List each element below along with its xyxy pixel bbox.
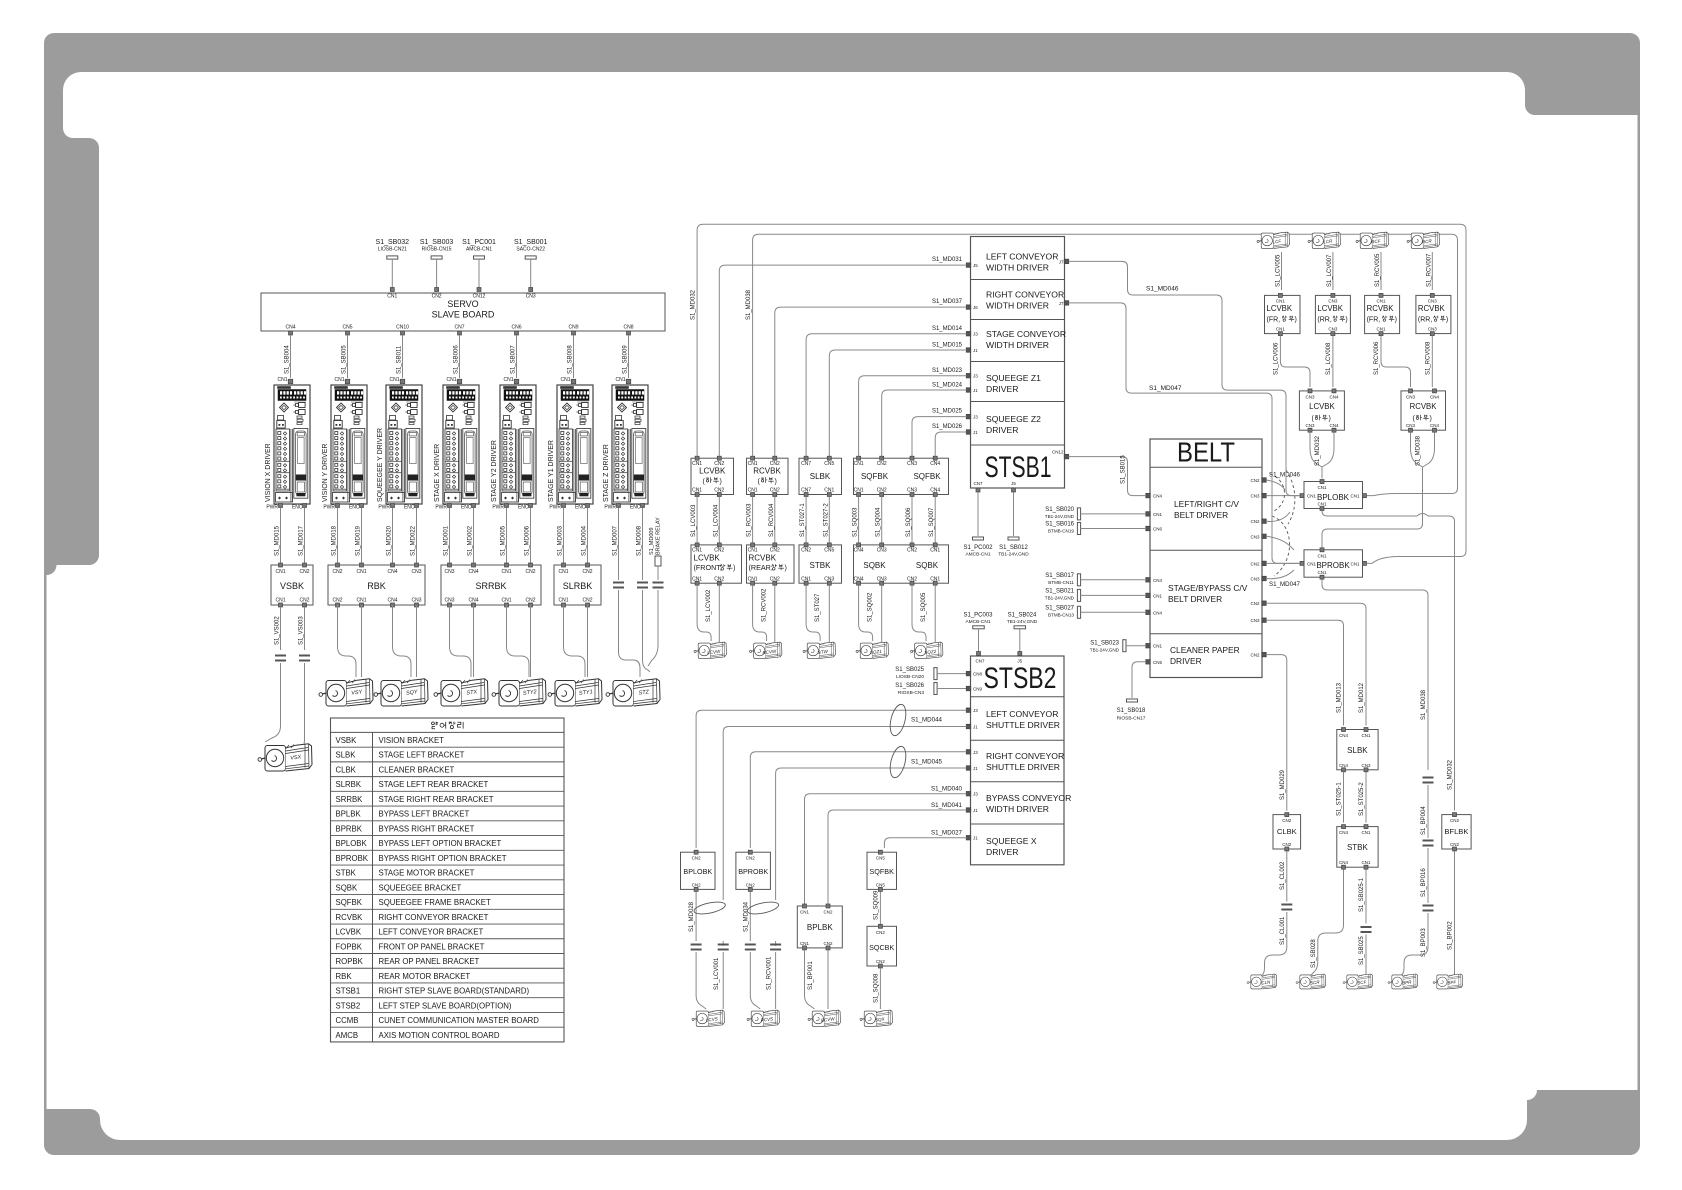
svg-text:SLRBK: SLRBK xyxy=(563,581,593,591)
pin CN6 xyxy=(1146,526,1163,531)
svg-text:BPLOBK: BPLOBK xyxy=(683,867,712,876)
svg-text:(FR,: (FR, xyxy=(1367,317,1381,324)
svg-text:CN2: CN2 xyxy=(299,598,309,604)
svg-text:S1_LCV006: S1_LCV006 xyxy=(1273,342,1279,375)
svg-text:S1_SQ005: S1_SQ005 xyxy=(921,592,927,622)
svg-text:RIGHT CONVEYOR BRACKET: RIGHT CONVEYOR BRACKET xyxy=(379,913,489,922)
svg-text:S1_MD001: S1_MD001 xyxy=(444,525,450,556)
svg-text:VISION Y DRIVER: VISION Y DRIVER xyxy=(322,444,329,502)
servo driver STAGE Z DRIVER xyxy=(603,377,648,511)
svg-text:ENC: ENC xyxy=(461,505,472,511)
bracket RCVBK (lower) middle xyxy=(747,456,789,496)
servo driver STAGE Y1 DRIVER xyxy=(548,377,593,511)
svg-text:CN2: CN2 xyxy=(801,548,811,554)
svg-text:FRONT OP PANEL BRACKET: FRONT OP PANEL BRACKET xyxy=(379,942,485,951)
svg-text:CN3: CN3 xyxy=(824,576,834,582)
svg-text:CN1: CN1 xyxy=(1361,860,1370,865)
svg-text:BTMB-CN13: BTMB-CN13 xyxy=(1048,612,1074,617)
bracket BPROBK (option) xyxy=(1300,548,1367,579)
svg-text:CN1: CN1 xyxy=(501,598,511,604)
wire S1_RCV008 xyxy=(1425,336,1432,387)
connector S1_PC003 AMCB-CN1 xyxy=(963,613,993,664)
svg-text:CN4: CN4 xyxy=(1339,763,1348,768)
svg-text:): ) xyxy=(785,565,787,572)
wire to motor SQY xyxy=(393,605,412,677)
svg-text:LEFT STEP SLAVE BOARD(OPTION): LEFT STEP SLAVE BOARD(OPTION) xyxy=(379,1001,512,1010)
pin CN3 right xyxy=(1250,618,1266,623)
svg-text:BELT: BELT xyxy=(1177,437,1235,468)
svg-text:CN4: CN4 xyxy=(387,598,397,604)
svg-text:): ) xyxy=(733,565,735,572)
svg-text:BYPASS LEFT OPTION BRACKET: BYPASS LEFT OPTION BRACKET xyxy=(379,839,502,848)
svg-text:ENC: ENC xyxy=(575,505,586,511)
svg-text:(: ( xyxy=(1312,416,1315,423)
wire S1_ST025-1 xyxy=(1337,772,1344,823)
svg-text:BPLBK: BPLBK xyxy=(336,810,362,819)
bracket RCVBK (lower right) xyxy=(1401,389,1446,432)
svg-text:S1_MD014: S1_MD014 xyxy=(932,326,963,332)
wire S1_BP002 xyxy=(1448,851,1455,975)
wire S1_LCV005 xyxy=(1276,252,1282,290)
svg-text:S1_SQ004: S1_SQ004 xyxy=(876,507,882,537)
svg-text:S1_SB027: S1_SB027 xyxy=(1045,605,1074,611)
svg-text:SQBK: SQBK xyxy=(863,561,886,570)
motor LCVW xyxy=(694,642,726,658)
wire S1_MD001 xyxy=(444,508,450,564)
svg-text:CN3: CN3 xyxy=(1428,327,1437,332)
connector S1_SB021 TB1-24V,GND xyxy=(1045,588,1146,601)
svg-text:S1_MD007: S1_MD007 xyxy=(613,525,619,556)
svg-text:BFLBK: BFLBK xyxy=(1444,827,1468,836)
connector S1_SB027 BTMB-CN13 xyxy=(1045,605,1146,618)
board pin CN7 xyxy=(454,325,464,336)
svg-text:BPROBK: BPROBK xyxy=(1316,561,1350,570)
svg-text:CN4: CN4 xyxy=(930,461,940,467)
svg-text:S1_MD005: S1_MD005 xyxy=(501,525,507,556)
bracket SLBK (right) xyxy=(1337,728,1378,772)
wire S1_ST025-2 xyxy=(1359,772,1366,823)
svg-text:S1_PC003: S1_PC003 xyxy=(963,613,993,619)
wire S1_MD038 (RCVBK loop to BPROBK) xyxy=(1322,521,1423,548)
svg-text:S1_MD040: S1_MD040 xyxy=(931,786,963,793)
svg-text:PWR: PWR xyxy=(323,505,335,511)
svg-text:RIGHT CONVEYOR: RIGHT CONVEYOR xyxy=(986,290,1064,300)
pin J3 xyxy=(966,791,978,796)
svg-text:RCVBK: RCVBK xyxy=(753,467,781,476)
svg-text:STAGE/BYPASS C/V: STAGE/BYPASS C/V xyxy=(1168,583,1248,593)
motor RCVW xyxy=(750,642,782,658)
svg-text:CN2: CN2 xyxy=(770,576,780,582)
svg-text:SLRBK: SLRBK xyxy=(336,780,362,789)
svg-text:S1_SB025: S1_SB025 xyxy=(1359,936,1365,965)
bracket BPROBK (lower) xyxy=(736,850,771,891)
svg-text:): ) xyxy=(1295,317,1297,324)
svg-text:CN3: CN3 xyxy=(1305,423,1314,428)
svg-text:S1_MD024: S1_MD024 xyxy=(932,383,963,389)
svg-text:CN3: CN3 xyxy=(907,488,917,494)
svg-text:RBK: RBK xyxy=(336,972,353,981)
svg-text:CN1: CN1 xyxy=(558,598,568,604)
svg-text:CN1: CN1 xyxy=(356,569,366,575)
svg-text:S1_LCV003: S1_LCV003 xyxy=(691,504,697,537)
servo driver VISION Y DRIVER xyxy=(322,377,367,511)
wire S1_MD038 loop xyxy=(1411,432,1435,521)
svg-text:STSB2: STSB2 xyxy=(984,662,1057,695)
wire S1_MD044 a xyxy=(696,710,966,848)
svg-text:CN4: CN4 xyxy=(285,325,295,331)
svg-text:CN1: CN1 xyxy=(1153,593,1162,598)
svg-text:S1_SB032: S1_SB032 xyxy=(376,239,410,246)
svg-text:RCVBK: RCVBK xyxy=(749,554,777,563)
svg-text:CN3: CN3 xyxy=(1328,327,1337,332)
svg-text:S1_ST025-2: S1_ST025-2 xyxy=(1359,782,1365,816)
svg-text:CN2: CN2 xyxy=(876,959,885,964)
svg-text:): ) xyxy=(1395,317,1397,324)
wire BPLBK CN2 down xyxy=(827,950,829,1009)
wire BELT CN3b to bundle xyxy=(1266,536,1294,550)
svg-text:J1: J1 xyxy=(973,388,978,393)
svg-text:SQUEEGEE BRACKET: SQUEEGEE BRACKET xyxy=(379,883,462,892)
bracket RCVBK (REAR, upper) xyxy=(747,543,795,585)
svg-text:S1_SB011: S1_SB011 xyxy=(397,345,403,374)
svg-text:TB1-24V,GND: TB1-24V,GND xyxy=(1045,514,1075,519)
motor RCVS xyxy=(747,1010,779,1026)
svg-text:SLBK: SLBK xyxy=(336,751,357,760)
svg-text:CN1: CN1 xyxy=(1376,327,1385,332)
svg-text:S1_SB009: S1_SB009 xyxy=(623,345,629,374)
svg-text:CN1: CN1 xyxy=(1350,494,1359,499)
bracket VSBK xyxy=(271,563,313,607)
wire xyxy=(828,585,830,642)
motor LCVS xyxy=(692,1010,724,1026)
svg-text:SHUTTLE DRIVER: SHUTTLE DRIVER xyxy=(986,720,1060,730)
svg-text:PWR: PWR xyxy=(492,505,504,511)
svg-text:): ) xyxy=(1446,317,1448,324)
wire xyxy=(416,605,418,677)
svg-text:SLAVE BOARD: SLAVE BOARD xyxy=(432,310,495,320)
wire BELT CN3c to bundle xyxy=(1266,570,1294,579)
svg-text:ENC: ENC xyxy=(518,505,529,511)
svg-text:S1_LCV001: S1_LCV001 xyxy=(714,957,720,990)
pin J3 xyxy=(966,750,978,755)
wire S1_SB005 xyxy=(342,335,348,378)
svg-text:CN1: CN1 xyxy=(854,488,864,494)
svg-text:TB1-24V,GND: TB1-24V,GND xyxy=(1090,648,1120,653)
svg-text:(: ( xyxy=(1413,416,1416,423)
svg-text:CN1: CN1 xyxy=(558,569,568,575)
connector S1_SB023 TB1-24V,GND xyxy=(1090,640,1146,653)
svg-text:J1: J1 xyxy=(973,430,978,435)
svg-text:J5: J5 xyxy=(1011,481,1016,486)
wire S1_MD017 xyxy=(299,508,305,564)
svg-text:S1_LCV002: S1_LCV002 xyxy=(706,589,712,622)
svg-text:S1_MD008: S1_MD008 xyxy=(637,525,643,556)
svg-text:LEFT CONVEYOR: LEFT CONVEYOR xyxy=(986,709,1058,719)
wire to motor STY2 xyxy=(507,605,530,677)
svg-text:CN1: CN1 xyxy=(692,576,702,582)
svg-text:CUNET COMMUNICATION MASTER BOA: CUNET COMMUNICATION MASTER BOARD xyxy=(379,1016,540,1025)
svg-text:S1_SB018: S1_SB018 xyxy=(1117,708,1146,714)
svg-text:SQUEEGE Z1: SQUEEGE Z1 xyxy=(986,373,1041,383)
svg-text:CN5: CN5 xyxy=(876,856,885,861)
svg-text:CN7: CN7 xyxy=(801,461,811,467)
wire BELT CN2c to BPROBK xyxy=(1266,562,1300,564)
svg-text:S1_MD018: S1_MD018 xyxy=(332,525,338,556)
svg-text:LIOSB-CN20: LIOSB-CN20 xyxy=(896,674,924,680)
svg-text:AMCB-CN1: AMCB-CN1 xyxy=(466,247,492,253)
pin CN1 xyxy=(1146,593,1163,598)
svg-text:S1_MD006: S1_MD006 xyxy=(525,525,531,556)
bracket LCVBK (RR,upper) xyxy=(1315,293,1350,335)
svg-text:CN1: CN1 xyxy=(1361,733,1370,738)
svg-text:S1_MD046: S1_MD046 xyxy=(1146,286,1179,293)
svg-text:S1_SB025: S1_SB025 xyxy=(895,667,924,673)
abbreviation table xyxy=(331,718,565,1042)
svg-text:CN3: CN3 xyxy=(877,576,887,582)
svg-text:CN3: CN3 xyxy=(907,461,917,467)
connector S1_SB024 TB1-24V,GND xyxy=(1007,613,1038,664)
board STSB2 xyxy=(971,656,1072,865)
svg-text:J3: J3 xyxy=(973,708,978,713)
svg-text:CLBK: CLBK xyxy=(336,765,357,774)
svg-text:CN2: CN2 xyxy=(692,882,701,887)
svg-text:CN4: CN4 xyxy=(1329,394,1338,399)
wire S1_MD025 xyxy=(912,417,967,457)
svg-text:CLEANER PAPER: CLEANER PAPER xyxy=(1170,645,1240,655)
svg-text:CN1: CN1 xyxy=(615,377,625,383)
wire S1_SQ006 xyxy=(906,497,912,543)
svg-text:CN3: CN3 xyxy=(1406,394,1415,399)
pin J7 xyxy=(1059,259,1069,264)
svg-text:AMCB: AMCB xyxy=(336,1031,359,1040)
board STSB1 xyxy=(971,237,1067,489)
svg-text:S1_LCV004: S1_LCV004 xyxy=(713,504,719,537)
svg-text:S1_ST027-2: S1_ST027-2 xyxy=(823,503,829,537)
wire S1_LCV001 xyxy=(714,941,729,1009)
bracket RCVBK (RR,upper) xyxy=(1416,293,1451,335)
svg-text:RCVBK: RCVBK xyxy=(1367,304,1395,313)
svg-text:RIOSB-CN17: RIOSB-CN17 xyxy=(1117,716,1146,722)
svg-text:(RR,: (RR, xyxy=(1418,317,1432,324)
pin J7 row2 xyxy=(1059,301,1069,306)
svg-text:RIGHT STEP SLAVE BOARD(STANDAR: RIGHT STEP SLAVE BOARD(STANDARD) xyxy=(379,987,530,996)
motor STY1 xyxy=(548,679,602,706)
wire S1_LCV007 xyxy=(1327,252,1333,290)
svg-text:CN4: CN4 xyxy=(1430,394,1439,399)
svg-text:CN2: CN2 xyxy=(332,569,342,575)
svg-text:S1_SB006: S1_SB006 xyxy=(454,345,460,374)
wire S1_BP001 xyxy=(805,950,815,1009)
svg-text:CN1: CN1 xyxy=(1153,644,1162,649)
wire S1_MD022 xyxy=(411,508,417,564)
svg-text:CN1: CN1 xyxy=(356,598,366,604)
svg-text:CN4: CN4 xyxy=(387,569,397,575)
svg-text:S1_MD032: S1_MD032 xyxy=(1448,759,1454,790)
BP chain connectors xyxy=(1402,778,1434,976)
svg-text:TB1-24V,GND: TB1-24V,GND xyxy=(998,552,1029,558)
wire to motor VSY xyxy=(338,605,357,677)
svg-text:VISION X DRIVER: VISION X DRIVER xyxy=(265,443,272,502)
svg-text:CN4: CN4 xyxy=(1329,423,1338,428)
wire S1_RCV001 xyxy=(767,941,782,1009)
svg-text:STBK: STBK xyxy=(1347,843,1369,852)
svg-text:CN1: CN1 xyxy=(1317,485,1326,490)
wire S1_LCV008 xyxy=(1326,336,1333,387)
svg-text:RCVBK: RCVBK xyxy=(1418,304,1446,313)
svg-text:CN7: CN7 xyxy=(973,481,982,486)
svg-text:STAGE CONVEYOR: STAGE CONVEYOR xyxy=(986,329,1066,339)
svg-text:SQUEEGEE Y DRIVER: SQUEEGEE Y DRIVER xyxy=(377,428,384,502)
svg-text:SQCBK: SQCBK xyxy=(869,943,894,952)
svg-text:S1_SB026: S1_SB026 xyxy=(895,683,924,689)
svg-text:STAGE RIGHT REAR BRACKET: STAGE RIGHT REAR BRACKET xyxy=(379,795,494,804)
svg-text:S1_MD029: S1_MD029 xyxy=(1280,769,1286,800)
wire S1_MD008 xyxy=(637,508,643,564)
svg-text:CN2: CN2 xyxy=(1282,842,1291,847)
svg-text:CN2: CN2 xyxy=(876,930,885,935)
svg-text:BYPASS LEFT BRACKET: BYPASS LEFT BRACKET xyxy=(379,810,470,819)
pin CN3 right xyxy=(1250,493,1266,498)
svg-text:CN2: CN2 xyxy=(877,488,887,494)
svg-text:CN2: CN2 xyxy=(1250,561,1259,566)
svg-text:DRIVER: DRIVER xyxy=(986,384,1018,394)
svg-text:PWR: PWR xyxy=(266,505,278,511)
svg-text:SQBK: SQBK xyxy=(916,561,939,570)
connector S1_SB012 TB1-24V,GND xyxy=(998,481,1029,558)
pin J1 xyxy=(966,766,978,771)
svg-text:CN1: CN1 xyxy=(1307,494,1316,499)
connector S1_PC002 AMCB-CN1 xyxy=(963,481,993,558)
wire xyxy=(774,585,776,642)
motor SCR xyxy=(1296,974,1326,989)
wire S1_MD028 xyxy=(689,891,726,1009)
wire S1_MD006 xyxy=(525,508,531,564)
brake relay S1_MD009 xyxy=(649,517,662,578)
svg-text:CN4: CN4 xyxy=(468,598,478,604)
svg-text:DRIVER: DRIVER xyxy=(986,425,1018,435)
svg-text:S1_PC001: S1_PC001 xyxy=(462,239,496,246)
svg-text:S1_SB024: S1_SB024 xyxy=(1008,613,1037,619)
pin CN2 right xyxy=(1250,478,1266,483)
svg-text:CN3: CN3 xyxy=(877,548,887,554)
motor LCF xyxy=(1257,232,1289,248)
svg-text:J6: J6 xyxy=(973,305,978,310)
pin J3 xyxy=(966,331,978,336)
svg-text:LCVBK: LCVBK xyxy=(699,467,726,476)
svg-text:CLBK: CLBK xyxy=(1277,827,1297,836)
svg-text:S1_MD047: S1_MD047 xyxy=(1269,581,1301,588)
svg-text:BPLBK: BPLBK xyxy=(807,923,833,932)
svg-text:S1_MD032: S1_MD032 xyxy=(691,289,697,320)
board pin CN5 xyxy=(342,325,352,336)
wire S1_MD032 loop xyxy=(1310,432,1334,478)
svg-text:CN1: CN1 xyxy=(1276,299,1285,304)
svg-text:CN2: CN2 xyxy=(907,548,917,554)
wire S1_CL001 xyxy=(1262,912,1287,975)
svg-text:CN1: CN1 xyxy=(1317,502,1326,507)
svg-text:S1_SQ002: S1_SQ002 xyxy=(868,592,874,622)
wire to motor STX xyxy=(450,605,472,677)
svg-text:CN2: CN2 xyxy=(432,294,442,300)
svg-text:STBK: STBK xyxy=(336,869,357,878)
svg-text:S1_MD034: S1_MD034 xyxy=(743,901,749,932)
svg-text:BYPASS CONVEYOR: BYPASS CONVEYOR xyxy=(986,793,1071,803)
svg-text:CN2: CN2 xyxy=(525,598,535,604)
motor SCF xyxy=(1343,974,1373,989)
svg-text:(REAR,: (REAR, xyxy=(749,563,773,572)
svg-text:CN1: CN1 xyxy=(800,941,809,946)
wire S1_SQ003 xyxy=(853,497,859,543)
svg-text:CN1: CN1 xyxy=(501,569,511,575)
svg-text:S1_SQ007: S1_SQ007 xyxy=(929,507,935,537)
svg-text:S1_BP001: S1_BP001 xyxy=(808,961,814,990)
svg-text:STAGE X DRIVER: STAGE X DRIVER xyxy=(434,444,441,502)
svg-text:BTMB-CN11: BTMB-CN11 xyxy=(1048,580,1074,585)
board pin CN9 xyxy=(568,325,578,336)
svg-text:CN4: CN4 xyxy=(468,569,478,575)
svg-text:J7: J7 xyxy=(1059,259,1064,264)
svg-text:SLBK: SLBK xyxy=(810,472,831,481)
svg-text:RIGHT CONVEYOR: RIGHT CONVEYOR xyxy=(986,751,1064,761)
svg-text:SQUEEGE X: SQUEEGE X xyxy=(986,836,1037,846)
wire S1_VS003 xyxy=(296,607,310,753)
servo driver STAGE X DRIVER xyxy=(434,377,479,511)
svg-text:CN4: CN4 xyxy=(1339,860,1348,865)
svg-text:TB1-24V,GND: TB1-24V,GND xyxy=(1045,595,1075,600)
bracket SQCBK xyxy=(867,924,897,968)
svg-text:SACO-CN22: SACO-CN22 xyxy=(516,247,545,253)
svg-text:J7: J7 xyxy=(1059,301,1064,306)
pin J1 xyxy=(966,724,978,729)
svg-text:CN5: CN5 xyxy=(824,548,834,554)
wire S1_MD019 xyxy=(356,508,362,564)
connector pair S1_MD007 line xyxy=(613,563,624,652)
svg-text:S1_SB017: S1_SB017 xyxy=(1045,573,1074,579)
svg-text:STBK: STBK xyxy=(810,561,832,570)
connector S1_SB003 RIOSB-CN15 xyxy=(420,239,454,300)
wire S1_MD044 b xyxy=(723,727,966,901)
bracket BPLOBK (lower) xyxy=(681,850,716,891)
wire S1_SB009 xyxy=(623,335,629,378)
svg-text:S1_MD041: S1_MD041 xyxy=(931,802,963,809)
svg-text:SQUEEGEE FRAME BRACKET: SQUEEGEE FRAME BRACKET xyxy=(379,898,491,907)
svg-text:CN2: CN2 xyxy=(877,461,887,467)
svg-text:LIOSB-CN21: LIOSB-CN21 xyxy=(378,247,407,253)
svg-text:CN3: CN3 xyxy=(411,598,421,604)
svg-text:SQFBK: SQFBK xyxy=(336,898,363,907)
svg-text:STAGE Y2 DRIVER: STAGE Y2 DRIVER xyxy=(491,440,498,502)
svg-text:PWR: PWR xyxy=(378,505,390,511)
svg-text:S1_RCV002: S1_RCV002 xyxy=(762,588,768,622)
bracket SLRBK xyxy=(554,563,601,607)
svg-text:S1_SB023: S1_SB023 xyxy=(1090,641,1119,647)
svg-text:S1_MD023: S1_MD023 xyxy=(932,368,963,374)
svg-text:CN3: CN3 xyxy=(411,569,421,575)
wire BELT CN2 to bundle xyxy=(1266,480,1285,490)
svg-text:S1_MD027: S1_MD027 xyxy=(931,830,963,837)
svg-text:CN2: CN2 xyxy=(746,856,755,861)
wire S1_SB004 xyxy=(285,335,291,378)
svg-text:CN3: CN3 xyxy=(1428,299,1437,304)
svg-text:LCVBK: LCVBK xyxy=(1267,304,1293,313)
wire S1_SQ004 xyxy=(876,497,882,543)
connector S1_SB025 LIOSB-CN20 xyxy=(895,667,982,680)
svg-text:S1_BP016: S1_BP016 xyxy=(1421,868,1427,897)
bracket CLBK xyxy=(1273,813,1301,851)
svg-text:S1_MD045: S1_MD045 xyxy=(911,759,943,766)
svg-text:S1_MD038: S1_MD038 xyxy=(746,289,752,320)
svg-text:CLEANER BRACKET: CLEANER BRACKET xyxy=(379,765,455,774)
